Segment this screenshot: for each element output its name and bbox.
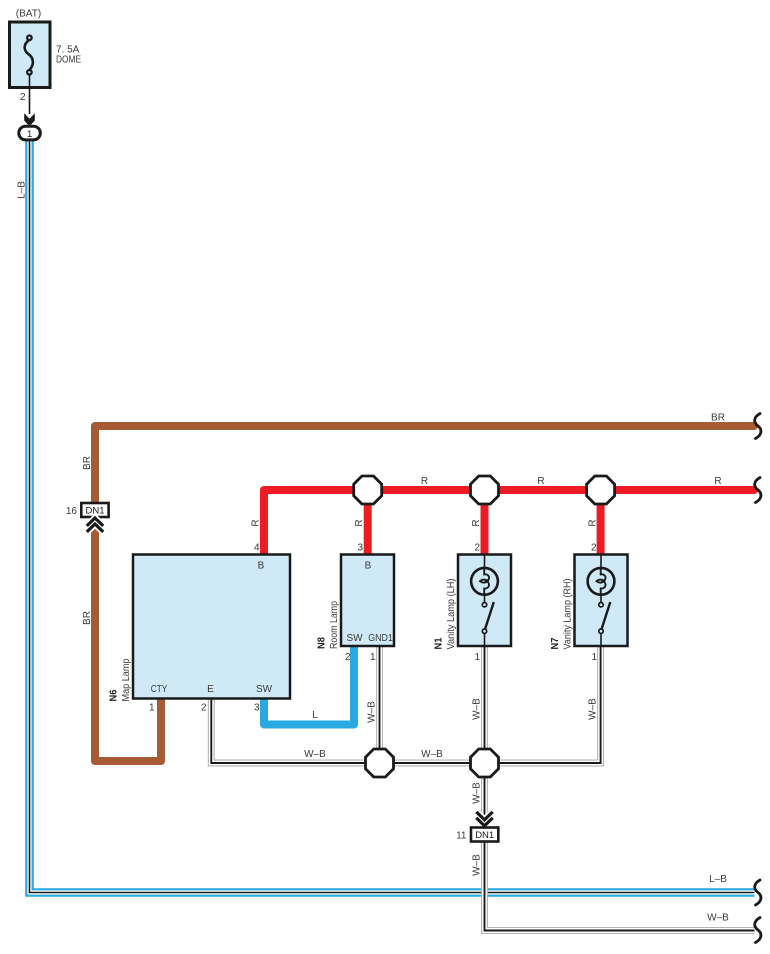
junction J4 on W-B line below N8 (366, 749, 394, 777)
svg-text:R: R (251, 519, 262, 526)
svg-text:GND1: GND1 (368, 633, 393, 644)
svg-text:SW: SW (256, 684, 273, 695)
svg-text:R: R (421, 476, 428, 487)
svg-text:R: R (714, 476, 721, 487)
fuse pin 2 lead (29, 75, 31, 114)
junction J2 on R bus above N1 (471, 476, 499, 504)
fuse element symbol (25, 36, 33, 75)
svg-text:L: L (312, 710, 318, 721)
wire W-B from N7 pin 1 down and left to junction (485, 646, 601, 763)
svg-text:1: 1 (474, 652, 480, 663)
svg-text:3: 3 (357, 543, 363, 554)
svg-text:B: B (365, 561, 372, 572)
wire R stub to N8 pin 3 (364, 490, 372, 555)
junction J1 on R bus above N8 (354, 476, 382, 504)
svg-text:1: 1 (149, 703, 155, 714)
switch N7 (600, 595, 602, 603)
svg-text:W–B: W–B (421, 749, 443, 760)
N7 internal lead (600, 555, 602, 569)
svg-text:DN1: DN1 (475, 830, 494, 841)
svg-text:L–B: L–B (709, 874, 727, 885)
chevron down above DN1 11 (476, 812, 492, 826)
bulb N1 (471, 568, 498, 595)
svg-text:Room Lamp: Room Lamp (329, 601, 340, 649)
svg-text:1: 1 (27, 129, 32, 140)
svg-text:2: 2 (20, 92, 26, 103)
svg-text:W–B: W–B (707, 913, 729, 924)
svg-text:E: E (207, 684, 214, 695)
wire BR lower: from DN1 16 down, left corner, up to N6 CTY (95, 517, 161, 761)
arrow into connector 1 (24, 113, 35, 126)
svg-text:W–B: W–B (472, 854, 483, 876)
svg-text:CTY: CTY (151, 684, 168, 695)
wire BR upper: horizontal to right edge and down to DN1 16 (95, 426, 754, 503)
connector DN1 pin 16 (81, 503, 108, 517)
svg-text:N7: N7 (550, 637, 561, 649)
junction J5 on W-B line below N1 (471, 749, 499, 777)
wire R bus: horizontal with corner down to N6 B (264, 490, 754, 555)
svg-text:L–B: L–B (17, 181, 28, 199)
svg-text:R: R (537, 476, 544, 487)
switch N1 (484, 595, 486, 603)
svg-text:W–B: W–B (367, 701, 378, 723)
svg-text:W–B: W–B (472, 782, 483, 804)
svg-text:Vanity Lamp (LH): Vanity Lamp (LH) (446, 579, 457, 650)
wire L-B from connector 1 down left side and across bottom (30, 140, 755, 893)
junction J3 on R bus above N7 (587, 476, 615, 504)
component N1 Vanity Lamp LH box (458, 555, 511, 647)
svg-text:BR: BR (711, 413, 725, 424)
svg-text:2: 2 (474, 543, 480, 554)
chevron up below DN1 16 (87, 518, 103, 532)
svg-text:3: 3 (254, 703, 260, 714)
N1 internal lead (484, 555, 486, 569)
fuse box (10, 22, 51, 88)
svg-text:SW: SW (346, 633, 363, 644)
svg-text:N6: N6 (109, 689, 120, 701)
wire W-B from N1 pin 1 down through junction to DN1 11 (481, 646, 488, 828)
svg-text:(BAT): (BAT) (16, 9, 42, 20)
svg-text:1: 1 (591, 652, 597, 663)
svg-text:R: R (471, 519, 482, 526)
svg-text:B: B (258, 561, 265, 572)
svg-text:4: 4 (254, 543, 260, 554)
svg-text:2: 2 (345, 652, 351, 663)
svg-text:2: 2 (591, 543, 597, 554)
svg-text:R: R (354, 519, 365, 526)
svg-text:Vanity Lamp (RH): Vanity Lamp (RH) (563, 579, 574, 650)
wire W-B from N6 E to junction row (211, 699, 484, 764)
wire W-B from N8 GND1 down to junction (376, 646, 383, 763)
break curl W-B right end (755, 918, 761, 943)
svg-text:2: 2 (201, 703, 207, 714)
component N7 Vanity Lamp RH box (575, 555, 628, 647)
connector DN1 pin 11 (471, 828, 498, 842)
component N6 Map Lamp box (133, 555, 290, 699)
svg-text:1: 1 (370, 652, 376, 663)
svg-text:DOME: DOME (56, 55, 81, 66)
wire R stub to N7 pin 2 (597, 490, 605, 555)
svg-text:R: R (588, 519, 599, 526)
svg-text:BR: BR (82, 456, 93, 470)
svg-text:W–B: W–B (472, 698, 483, 720)
svg-text:W–B: W–B (588, 698, 599, 720)
bulb N7 (588, 568, 615, 595)
break curl R right end (755, 478, 761, 503)
svg-text:BR: BR (82, 611, 93, 625)
svg-text:11: 11 (456, 831, 467, 842)
connector oval 1 (19, 126, 41, 140)
break curl L-B right end (755, 880, 761, 905)
svg-text:N8: N8 (317, 637, 328, 649)
wire L between N6 SW and N8 SW (264, 646, 354, 725)
wire R stub to N1 pin 2 (481, 490, 489, 555)
svg-text:N1: N1 (434, 637, 445, 649)
svg-text:16: 16 (66, 506, 78, 517)
break curl BR right end (755, 414, 761, 439)
svg-text:W–B: W–B (304, 749, 326, 760)
component N8 Room Lamp box (341, 555, 394, 647)
wire W-B from DN1 11 down across L-B and right to edge (485, 841, 755, 931)
svg-text:Map Lamp: Map Lamp (121, 658, 132, 701)
